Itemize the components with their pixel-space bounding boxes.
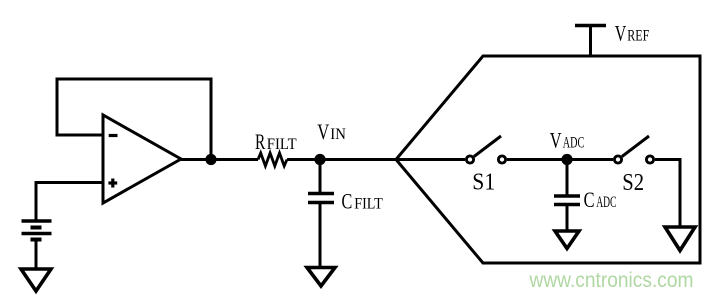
ground (CFILT) [307,268,335,287]
wire VIN to ADC input [320,158,396,161]
svg-text:www.cntronics.com: www.cntronics.com [529,269,694,292]
svg-text:C: C [584,188,595,212]
wire ADC input to S1 [396,158,465,161]
label VIN [317,120,346,144]
wire resistor to VIN node [287,158,320,161]
svg-text:V: V [317,120,329,144]
svg-text:R: R [255,130,266,154]
label CADC [584,188,617,212]
svg-text:ADC: ADC [596,194,616,211]
svg-text:IN: IN [330,126,346,143]
svg-text:S1: S1 [472,169,495,196]
op-amp U1 [103,115,181,203]
wire CADC to ground [566,206,569,231]
svg-text:V: V [550,128,562,152]
svg-text:C: C [342,190,353,214]
wire feedback loop [57,79,211,159]
ground (S2) [665,227,695,251]
svg-text:ADC: ADC [563,134,585,151]
wire S2 to ground [655,160,680,228]
capacitor CADC [554,196,580,205]
label VADC [550,128,585,152]
resistor RFILT [258,153,287,166]
capacitor CFILT [308,194,334,203]
svg-text:FILT: FILT [267,136,297,153]
ground (battery) [21,269,51,291]
wire VADC to CADC [566,160,569,196]
svg-text:FILT: FILT [354,196,383,213]
svg-text:REF: REF [627,28,649,45]
wire VIN to CFILT [319,160,322,193]
label CFILT [342,190,384,214]
node VIN [314,154,325,165]
wire CFILT to ground [319,204,322,267]
wire opamp noninverting input [36,183,103,221]
wire battery to ground [35,240,38,269]
switch S1 [466,136,505,163]
label RFILT [255,130,297,154]
VREF supply stub [575,26,606,57]
ground (CADC) [555,231,579,249]
wire S1 to VADC [507,158,567,161]
node VADC [561,154,572,165]
ADC block outline [396,56,700,263]
battery V1 [22,221,52,240]
wire opamp output [181,158,258,161]
node output junction [205,154,216,165]
svg-text:V: V [615,22,627,46]
wire VADC to S2 [567,158,613,161]
switch S2 [614,136,653,163]
label VREF [615,22,650,46]
svg-text:S2: S2 [622,169,644,196]
